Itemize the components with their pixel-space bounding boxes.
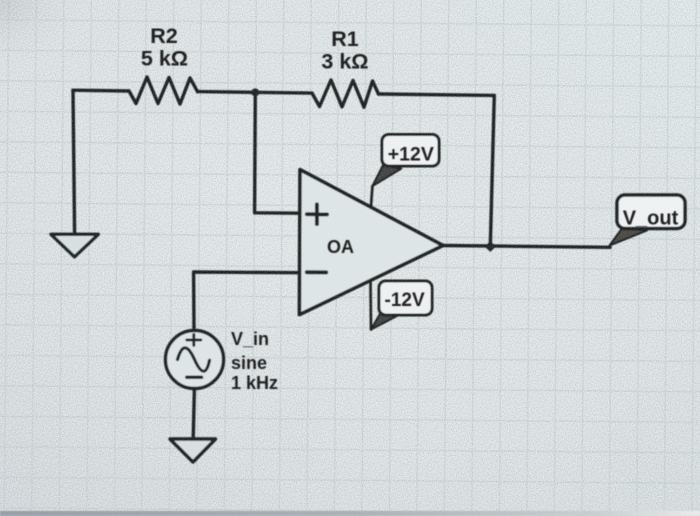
wire top-left horizontal (73, 88, 129, 92)
V_out flag box (617, 195, 685, 229)
wire left vertical (73, 90, 75, 234)
-12V flag tail (371, 313, 399, 330)
wire minus input (194, 272, 300, 331)
V_out flag tail (610, 228, 648, 245)
op-amp plus pin mark (307, 204, 327, 224)
-12V flag stem (369, 282, 372, 330)
resistor R1 (312, 80, 379, 107)
wire junction to plus input (255, 92, 300, 213)
node junction output (486, 242, 495, 251)
ground left (51, 234, 98, 256)
wire right vertical (490, 95, 494, 246)
op-amp minus pin mark (307, 270, 326, 274)
resistor R2 (129, 77, 198, 104)
ground bottom (170, 439, 216, 462)
source V1 circle (166, 331, 224, 389)
+12V flag stem (371, 186, 372, 206)
node junction after R2 (251, 88, 259, 96)
source plus mark (187, 334, 201, 345)
op-amp OA triangle (299, 170, 443, 315)
wire R1 to right corner (379, 94, 495, 95)
schematic ink (51, 77, 685, 462)
output wire (443, 246, 610, 248)
wire R2 to R1 (198, 92, 313, 94)
wire source to ground (193, 389, 194, 440)
source sine mark (178, 348, 210, 371)
-12V flag box (379, 281, 432, 315)
+12V flag box (382, 135, 439, 167)
bottom photo edge band (0, 511, 700, 516)
source minus mark (187, 376, 202, 380)
+12V flag tail (372, 165, 401, 186)
